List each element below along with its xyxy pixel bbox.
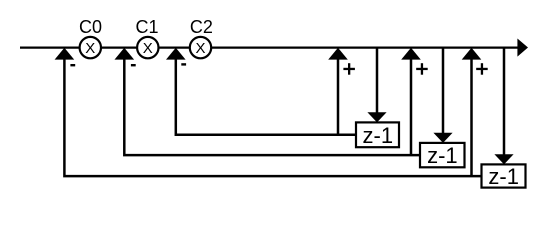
output arrowhead xyxy=(517,39,528,57)
wire: tap from main line into delay Z1 xyxy=(376,48,379,116)
minus sign at S1 xyxy=(70,64,75,66)
arrowhead into delay Z1 xyxy=(367,112,386,122)
summing node A2 (plus) arrowhead xyxy=(401,48,421,60)
svg-text:C0: C0 xyxy=(79,17,102,37)
multiplier C0 (circle with X) xyxy=(80,37,101,58)
minus sign at S3 xyxy=(181,63,186,65)
wire: tap from main line into delay Z3 xyxy=(503,48,506,158)
summing node S1 (minus) arrowhead xyxy=(55,48,75,60)
svg-text:C1: C1 xyxy=(135,17,158,37)
svg-text:X: X xyxy=(195,40,205,57)
summing node S2 (minus) arrowhead xyxy=(115,48,135,60)
arrowhead into delay Z3 xyxy=(494,154,513,164)
summing node A1 (plus) arrowhead xyxy=(328,48,348,60)
svg-text:X: X xyxy=(143,40,153,57)
wire: feedback from delay Z1 to subtractor node S3 xyxy=(176,52,356,135)
multiplier C2 (circle with X) xyxy=(190,37,211,58)
delay element Z2 (z-1 box) xyxy=(420,143,465,168)
svg-text:C2: C2 xyxy=(190,17,213,37)
summing node A3 (plus) arrowhead xyxy=(462,48,482,60)
delay element Z3 (z-1 box) xyxy=(482,164,526,189)
svg-text:z-1: z-1 xyxy=(363,123,394,148)
svg-text:z-1: z-1 xyxy=(488,164,519,189)
summing node S3 (minus) arrowhead xyxy=(166,48,186,60)
plus sign at A2 xyxy=(416,63,428,74)
delay element Z1 (z-1 box) xyxy=(356,122,399,147)
wire: tap from main line into delay Z2 xyxy=(442,48,445,136)
arrowhead into delay Z2 xyxy=(433,133,452,143)
wire: delay Z1 output up to adder node A1 xyxy=(337,52,340,135)
wire: delay Z2 output up to adder node A2 xyxy=(410,52,413,155)
wire: feedback from delay Z2 to subtractor node S2 xyxy=(124,52,420,155)
svg-text:X: X xyxy=(85,40,95,57)
wire: feedback from delay Z3 to subtractor node S1 xyxy=(64,52,481,176)
svg-text:z-1: z-1 xyxy=(427,143,458,168)
wire: main signal line (input to output) xyxy=(20,46,519,48)
wire: delay Z3 output up to adder node A3 xyxy=(470,52,473,176)
plus sign at A3 xyxy=(476,63,488,74)
minus sign at S2 xyxy=(131,64,136,66)
plus sign at A1 xyxy=(343,63,355,74)
multiplier C1 (circle with X) xyxy=(137,37,158,58)
